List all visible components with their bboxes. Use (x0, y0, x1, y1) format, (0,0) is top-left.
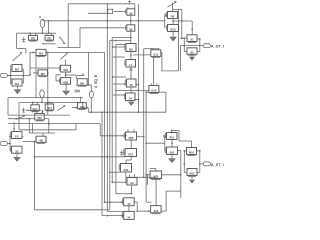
wire b26-b6 (130, 31, 132, 43)
pin stub top (88, 9, 113, 13)
wire m2 rails r (22, 69, 24, 76)
wire c right rail (88, 53, 90, 85)
wire block2 top (19, 102, 83, 104)
transistor X26 (151, 206, 162, 214)
wire m26 drain (134, 4, 136, 9)
svg-text:L1: L1 (129, 63, 133, 67)
svg-text:24: 24 (128, 216, 131, 220)
wire b down (65, 84, 67, 89)
wire x13 gate feed (133, 54, 151, 56)
wire g3 row (8, 118, 35, 120)
resistor R2 (40, 90, 44, 103)
wire a top (65, 60, 67, 66)
wire gate l1 (113, 56, 125, 58)
transistor V24 (123, 211, 135, 219)
wire pin drop (90, 97, 92, 112)
wire l1-m30 (130, 67, 132, 79)
wire drop x68 (67, 4, 69, 48)
transistor M26 (126, 9, 135, 16)
wire portB (7, 143, 10, 145)
svg-text:A_GT_I: A_GT_I (211, 44, 224, 48)
wire m2 rails (10, 69, 12, 76)
wire bus b6 (111, 38, 113, 183)
svg-text:B20: B20 (170, 28, 176, 32)
wire low right drop (180, 151, 182, 199)
wire r21-r13 (126, 157, 131, 164)
svg-text:26: 26 (129, 11, 133, 15)
wire b26 gate long (80, 27, 125, 29)
ground under X2 (190, 56, 195, 60)
svg-text:X2: X2 (190, 51, 194, 55)
wire ast right rail (199, 151, 201, 173)
svg-text:B8: B8 (80, 82, 84, 86)
svg-text:4B: 4B (39, 139, 43, 143)
wire m12 left (184, 171, 187, 173)
wire node to right box (162, 70, 179, 72)
wire x25 left (145, 174, 150, 176)
svg-text:M5: M5 (41, 72, 45, 76)
transistor 4D5 (59, 65, 70, 72)
wire g3 right (44, 119, 49, 133)
transistor B26 (126, 25, 135, 32)
wire long mid2 (29, 132, 55, 134)
wire x13 down (152, 56, 154, 85)
transistor 7R2 (35, 114, 44, 121)
ground under M4 (15, 88, 21, 93)
wire out low right (166, 190, 181, 192)
transistor 9C1 (31, 103, 40, 112)
wire v1 gate row (104, 201, 122, 203)
wire m3 up frame (35, 56, 37, 98)
transistor X2 (187, 48, 197, 55)
wire p1 top (13, 122, 15, 132)
wire x2 right (197, 51, 200, 53)
wire v2 top row (107, 210, 123, 212)
wire bus r1 (138, 4, 140, 112)
svg-text:M3: M3 (39, 52, 43, 56)
wire v1-v2 (128, 206, 130, 212)
wire bus b1 (100, 124, 127, 137)
wire m12 right (197, 171, 200, 173)
output pin A_ST (203, 162, 210, 166)
wire b gate (56, 74, 61, 76)
wire m7 left (10, 149, 12, 151)
wire ab node right (66, 75, 77, 79)
wire g node (42, 110, 44, 114)
wire 4b right (46, 141, 47, 143)
wire tap node2 (110, 40, 131, 42)
wire m5 right (47, 72, 49, 74)
wire ast left rail (183, 150, 185, 172)
svg-text:M12: M12 (189, 172, 195, 176)
transistor M24 (124, 93, 135, 101)
wire v30 (29, 53, 31, 75)
transistor 4D2 (59, 78, 70, 85)
ground under B20 (170, 36, 176, 41)
transistor R13 (119, 164, 131, 173)
7r2 top leads (36, 110, 38, 113)
wire a gate (30, 67, 60, 69)
svg-text:M4: M4 (15, 82, 19, 86)
svg-text:P21: P21 (169, 136, 174, 140)
wire bus r2 (143, 49, 145, 178)
svg-text:B21: B21 (170, 151, 175, 155)
svg-text:1R6: 1R6 (80, 105, 85, 109)
wire x25 top stub (150, 168, 156, 170)
wire x25 left down (147, 175, 149, 185)
wire m12 down (191, 176, 193, 179)
wire port row (7, 74, 30, 76)
wire u gate feed (146, 142, 165, 144)
wire bus r3 (145, 92, 151, 202)
wire stage1 frame (8, 97, 83, 115)
wire gate m26a (114, 11, 126, 13)
ground under M24 (129, 101, 134, 106)
transistor B20 (166, 25, 178, 32)
wire y172 (109, 171, 121, 173)
svg-text:4D5: 4D5 (63, 68, 69, 72)
wire e top (80, 98, 82, 103)
transistor B15 (149, 83, 159, 93)
wire r23 right (137, 136, 145, 138)
wire x26 right (161, 191, 166, 211)
vdd stub (129, 1, 131, 4)
transistor P6 (166, 12, 177, 19)
wire e row left (72, 107, 78, 109)
svg-text:7R1: 7R1 (47, 36, 52, 40)
x13 leads (153, 49, 159, 50)
ground under B21 (169, 157, 175, 162)
wire p1 row (9, 136, 11, 138)
transistor 1R6 (78, 103, 87, 110)
wire r23-r21 (130, 140, 132, 149)
wire m26-b26 (130, 15, 132, 25)
svg-text:P6: P6 (171, 15, 175, 19)
transistor X25 (150, 171, 162, 179)
svg-text:4D2: 4D2 (63, 80, 69, 84)
wire r13 down (125, 172, 127, 177)
wire m3 right (46, 52, 105, 54)
wire long mid (8, 123, 100, 125)
wire agt left rail (180, 37, 187, 39)
wire x13 right (161, 52, 162, 71)
wire fb left (34, 142, 36, 210)
transistor M2 (11, 65, 22, 72)
input port A (0, 73, 10, 77)
wire c left (76, 84, 77, 86)
wire m4 rails (10, 76, 12, 84)
wire x25 top (155, 169, 157, 172)
wire r13 out (126, 176, 156, 178)
wire node agt gate (172, 20, 193, 35)
transistor P1 (10, 132, 22, 139)
transistor M3 (36, 49, 46, 56)
pin A_EQ_B (90, 91, 94, 97)
transistor V30 (123, 198, 135, 206)
wire rail corner (17, 34, 26, 54)
svg-text:A_EQ_B: A_EQ_B (94, 74, 98, 88)
wire v478 (47, 53, 49, 116)
wire right drop1 (181, 9, 183, 38)
transistor B8 (77, 79, 87, 87)
svg-text:30: 30 (130, 83, 134, 87)
r23 top leads (127, 129, 129, 132)
svg-text:30: 30 (128, 202, 131, 206)
svg-text:X1: X1 (190, 38, 194, 42)
svg-text:M10: M10 (189, 151, 195, 155)
output pin A_GT (203, 44, 210, 48)
transistor L1 (125, 60, 136, 68)
wire drain row (43, 20, 165, 22)
x6 top leads (129, 175, 131, 178)
wire m4 down (17, 86, 19, 88)
wire bus b7 (115, 44, 117, 193)
ground under M12 (190, 179, 195, 183)
wire x26 gate drop (155, 177, 157, 205)
wire gate bus tr (164, 15, 166, 28)
svg-text:20: 20 (15, 149, 19, 153)
wire v0 down (131, 185, 133, 195)
arrow center (61, 52, 69, 59)
wire m24 right stub (135, 99, 139, 101)
body tap mark 2 (22, 108, 26, 112)
transistor R21 (124, 149, 137, 157)
wire drop block2 b (32, 124, 34, 133)
svg-text:M2: M2 (15, 68, 19, 72)
transistor B6 (125, 44, 136, 52)
transistor R23 (124, 132, 136, 140)
wire ast out (200, 163, 204, 165)
wire y475 (58, 47, 80, 49)
wire bottom long (34, 209, 109, 211)
wire m5 left (33, 72, 38, 74)
wire portB rail (9, 136, 11, 150)
svg-text:24: 24 (129, 97, 133, 101)
wire x26 row left (137, 210, 148, 212)
svg-text:4C1: 4C1 (47, 106, 52, 110)
wire long 1 (8, 114, 70, 116)
wire m10 top (191, 141, 193, 148)
svg-text:V: V (39, 15, 41, 19)
wire x80 drop (79, 28, 81, 48)
wire m7 down (16, 153, 18, 156)
net line A_EQ (90, 88, 92, 92)
wire right frame (178, 9, 180, 71)
wire t2 drain drop (47, 21, 49, 34)
wire bus b4 (101, 111, 103, 215)
transistor M30 (125, 79, 136, 87)
arrow adjust 1 (59, 37, 65, 44)
wire v2 left (121, 215, 124, 217)
wire top rail vdd (68, 3, 135, 5)
transistor M7 (10, 146, 22, 153)
wire gate m30a (112, 76, 126, 78)
transistor P21 (165, 133, 177, 140)
bias resistor R1 (40, 19, 45, 33)
wire gate m24 (113, 94, 125, 96)
wire x1 right (197, 38, 201, 40)
wire block2 left (18, 102, 20, 129)
arrow block2 (58, 105, 66, 110)
svg-text:B15: B15 (151, 89, 157, 93)
svg-text:X6: X6 (130, 181, 134, 185)
transistor 4C1 (45, 102, 54, 111)
body tap mark (22, 37, 26, 41)
wire m10 left (184, 150, 186, 152)
arrow p1 (16, 115, 26, 119)
ground under M7 (14, 156, 20, 161)
wire tap node3 (116, 43, 126, 45)
wire gate b6 (112, 46, 125, 48)
transistor M4 (11, 79, 22, 86)
transistor B21 (165, 147, 177, 155)
arrow top right (168, 1, 177, 7)
wire u gate bus (164, 136, 166, 152)
p21 gate bubble (164, 135, 166, 137)
wire x2 left (184, 51, 187, 53)
transistor X13 (151, 50, 161, 58)
transistor M10 (187, 148, 197, 156)
wire c top stub (82, 73, 84, 76)
ground under 4D2 (63, 90, 69, 95)
transistor M12 (187, 169, 197, 177)
input port B (0, 141, 10, 145)
wire drop block2 (28, 119, 30, 133)
wire agt out (180, 45, 203, 47)
wire m30-m24 (130, 87, 132, 93)
svg-text:7R2: 7R2 (37, 116, 42, 120)
wire bus b2 vdd (106, 4, 108, 212)
svg-text:X26: X26 (154, 209, 159, 213)
wire g row (26, 109, 41, 111)
wire b15 gate (116, 90, 149, 92)
wire v1 right (134, 202, 138, 212)
wire x13 rail (144, 48, 160, 50)
wire c right (87, 84, 91, 87)
wire block2 bottom (19, 124, 76, 130)
wire x25 right (162, 174, 182, 176)
wire c top bar (77, 75, 85, 77)
transistor 4B (36, 136, 46, 143)
wire v0 tap (116, 193, 132, 195)
svg-text:R21: R21 (128, 153, 133, 157)
svg-text:A_ST_I: A_ST_I (211, 163, 224, 167)
wire b15 left (145, 91, 149, 93)
wire b21 down (171, 155, 173, 158)
wire long low (34, 156, 125, 158)
wire out node drop (179, 46, 181, 71)
wire b15 right (159, 92, 166, 112)
transistor 7R1 (45, 33, 54, 41)
transistor 5R1 (29, 33, 38, 41)
wire v2 gate row (102, 215, 122, 217)
wire m30 right stub (136, 84, 139, 86)
wire block2 step (83, 102, 89, 112)
gate mark r21 (120, 151, 124, 155)
svg-text:P1: P1 (15, 135, 19, 139)
wire vdd rail (17, 32, 57, 34)
wire agt rails right (199, 39, 201, 52)
svg-text:R23: R23 (129, 136, 134, 140)
transistor X6 (126, 178, 137, 186)
wire bus b5 (109, 41, 111, 210)
wire bus b3 (104, 53, 106, 203)
transistor X1 (187, 35, 197, 43)
wire a-b (65, 72, 67, 78)
transistor M5 (38, 70, 48, 77)
wire v0 gate (111, 181, 127, 183)
wire p6 top (172, 3, 174, 12)
wire b6-l1 (130, 52, 132, 60)
wire tap node1 (112, 37, 132, 39)
p6 gate bubble (165, 14, 167, 16)
wire p1 right (22, 135, 23, 137)
wire mid long (88, 111, 166, 113)
wire portB row2 (23, 141, 35, 143)
wire m10 right (197, 150, 201, 152)
svg-text:5R1: 5R1 (31, 36, 36, 40)
wire b21 drain stub (178, 150, 181, 152)
wire gate row (42, 43, 55, 45)
wire p6 rail (173, 8, 182, 10)
wire m4 rails r (22, 76, 24, 84)
wire v1 left (121, 201, 124, 203)
svg-text:X13: X13 (153, 53, 158, 57)
marks under B8 (75, 89, 81, 91)
wire b20 down (172, 32, 174, 36)
wire gate m30b (113, 83, 125, 85)
svg-text:R13: R13 (124, 168, 129, 172)
wire p6-b20 (172, 19, 174, 25)
arrow input stage (13, 52, 23, 60)
wire x26 left (147, 210, 150, 212)
wire u top row (172, 131, 192, 142)
wire m3 row (30, 52, 36, 54)
wire agt rails left (183, 38, 185, 51)
wire p21-b21 (171, 140, 173, 148)
wire u top (171, 130, 173, 133)
wire m26 lead l (127, 7, 129, 9)
wire 4b left (34, 141, 36, 143)
svg-text:26: 26 (129, 27, 133, 31)
svg-text:B6: B6 (129, 48, 133, 52)
wire e row right (86, 107, 88, 109)
